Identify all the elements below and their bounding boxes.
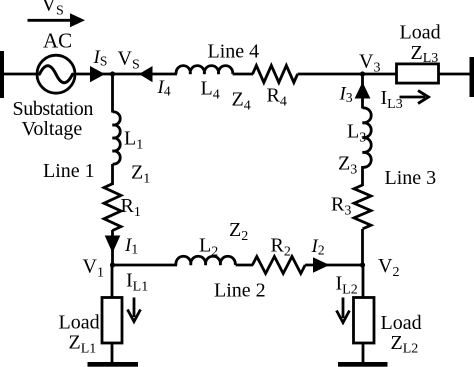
svg-text:Load: Load	[400, 22, 441, 44]
ground (V1)	[88, 362, 139, 367]
svg-text:Line 4: Line 4	[208, 41, 260, 63]
wire: R3 to node V2	[361, 229, 364, 266]
node Vs	[110, 71, 115, 76]
node V1	[110, 262, 115, 267]
current arrow IL1	[128, 298, 141, 322]
wire: R4 to node V3	[298, 73, 396, 76]
wire: node V1 to load ZL1	[111, 265, 114, 298]
svg-text:Voltage: Voltage	[22, 118, 83, 140]
svg-text:AC: AC	[43, 29, 72, 53]
svg-text:Line 1: Line 1	[43, 160, 95, 182]
current arrow I3	[355, 82, 371, 99]
label Substation Voltage	[13, 98, 94, 140]
resistor R1	[104, 184, 121, 231]
load ZL2 box	[354, 298, 375, 344]
wire: node V1 to L2	[113, 264, 178, 267]
current arrow I1	[105, 236, 121, 254]
node V3	[360, 71, 365, 76]
svg-text:Line 2: Line 2	[214, 280, 266, 302]
current arrow IL3	[400, 91, 429, 104]
inductor L1	[113, 112, 121, 164]
wire: ZL1 to ground	[111, 343, 114, 363]
wire: bus to AC source	[2, 73, 37, 76]
resistor R3	[354, 185, 371, 229]
wire: node V2 to load ZL2	[362, 265, 365, 298]
wire: ZL2 to ground	[362, 343, 365, 363]
AC source (substation voltage)	[37, 55, 75, 93]
left bus bar	[0, 51, 4, 98]
svg-text:Line 3: Line 3	[385, 167, 437, 189]
load ZL1 box	[102, 298, 122, 344]
resistor R4	[253, 66, 298, 83]
wire: R1 to node V1	[111, 230, 114, 266]
current arrow I4	[139, 66, 153, 82]
node V2	[360, 262, 365, 267]
ground (V2)	[338, 362, 388, 367]
wire: node Vs to L4	[113, 73, 178, 76]
inductor L4	[176, 66, 233, 74]
wire: ZL3 to right bus	[440, 73, 472, 76]
wire: R2 to node V2	[305, 264, 362, 267]
Vs reference arrow	[28, 13, 86, 27]
wire: node V3 down to L3	[361, 74, 364, 109]
wire: L2 to R2	[236, 264, 253, 267]
svg-text:Load: Load	[381, 312, 422, 334]
current arrow Is	[90, 66, 105, 82]
current arrow I2	[313, 257, 330, 273]
wire: node Vs down to L1	[111, 74, 114, 113]
wire: L1 to R1	[111, 164, 114, 185]
wire: L4 to R4	[233, 73, 253, 76]
right bus bar	[470, 57, 474, 97]
svg-text:Substation: Substation	[13, 98, 94, 120]
wire: L3 to R3	[361, 166, 364, 186]
wire: AC source to node Vs	[76, 73, 114, 76]
current arrow IL2	[337, 298, 350, 323]
inductor L3	[363, 108, 372, 167]
svg-text:Load: Load	[59, 312, 100, 334]
load ZL3 box	[397, 64, 439, 83]
inductor L2	[176, 256, 235, 265]
resistor R2	[252, 257, 305, 274]
